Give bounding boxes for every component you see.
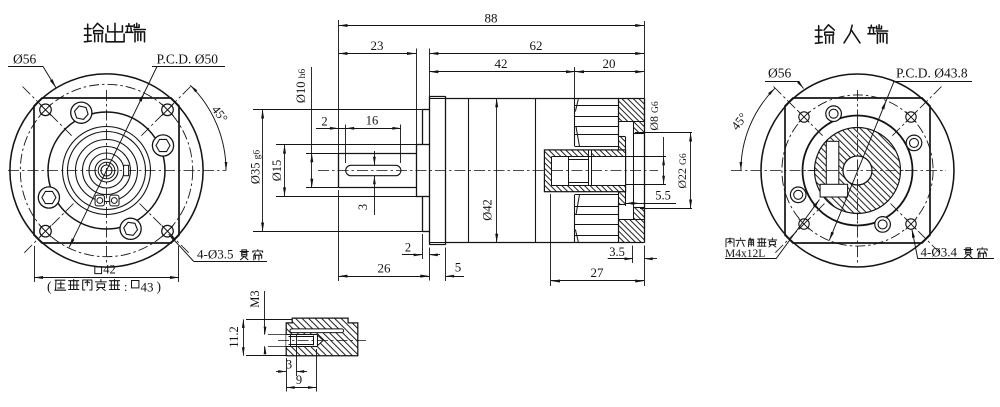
svg-text:Ø42: Ø42 xyxy=(481,199,495,221)
svg-text:42: 42 xyxy=(103,263,116,277)
svg-text:Ø56: Ø56 xyxy=(768,66,791,81)
svg-text:2: 2 xyxy=(321,115,327,129)
svg-text:16: 16 xyxy=(366,114,379,128)
svg-text:Ø56: Ø56 xyxy=(13,52,36,67)
svg-text:P.C.D. Ø50: P.C.D. Ø50 xyxy=(157,52,219,67)
svg-text:4-Ø3.4: 4-Ø3.4 xyxy=(921,244,958,259)
svg-text:42: 42 xyxy=(495,56,508,71)
svg-text:20: 20 xyxy=(603,56,616,71)
svg-text:3: 3 xyxy=(356,204,370,210)
svg-text:43: 43 xyxy=(141,280,154,295)
svg-text:4-Ø3.5: 4-Ø3.5 xyxy=(197,246,233,261)
svg-text:9: 9 xyxy=(296,373,302,387)
svg-text:62: 62 xyxy=(530,38,543,53)
svg-text:5: 5 xyxy=(455,260,462,275)
svg-text:P.C.D. Ø43.8: P.C.D. Ø43.8 xyxy=(896,66,968,81)
svg-text:): ) xyxy=(157,279,162,294)
svg-text::: : xyxy=(124,280,127,294)
svg-text:26: 26 xyxy=(378,261,392,276)
svg-text:5.5: 5.5 xyxy=(655,189,671,203)
svg-text:23: 23 xyxy=(371,38,384,53)
svg-text:88: 88 xyxy=(485,11,498,26)
svg-text:3.5: 3.5 xyxy=(609,245,625,259)
svg-text:11.2: 11.2 xyxy=(227,326,241,347)
svg-text:(: ( xyxy=(47,279,52,294)
svg-text:2: 2 xyxy=(405,241,411,255)
svg-text:3: 3 xyxy=(286,358,292,372)
svg-text:M3: M3 xyxy=(248,290,262,307)
svg-text:Ø15: Ø15 xyxy=(270,160,284,182)
svg-text:27: 27 xyxy=(591,265,605,280)
